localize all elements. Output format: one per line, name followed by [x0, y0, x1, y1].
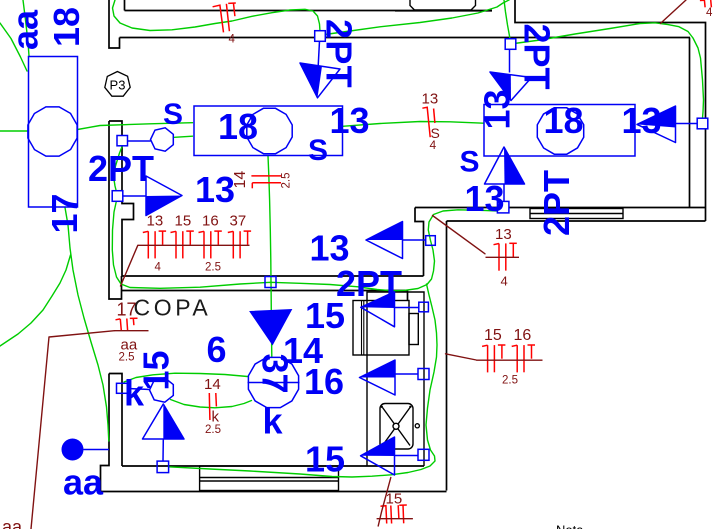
svg-text:Nota: Nota — [556, 523, 584, 529]
switch heptagon k — [150, 378, 174, 402]
lamp triangle T1 — [146, 176, 182, 216]
junction box S_r — [497, 201, 509, 213]
line S2 to lamp T2 — [509, 50, 511, 73]
wall top-left pier — [109, 0, 125, 48]
switch box S0 — [117, 136, 128, 146]
wire k loop lower — [171, 400, 252, 408]
wire left room branch right — [65, 208, 109, 442]
switch heptagon S middle — [151, 128, 174, 151]
window right room — [530, 209, 623, 219]
svg-text:17: 17 — [44, 193, 85, 233]
wall mid-bottom lower line — [122, 290, 408, 292]
svg-text:13: 13 — [495, 226, 512, 243]
fixture right box 18 — [484, 105, 635, 157]
svg-text:2.5: 2.5 — [502, 375, 518, 387]
wire middle box to right box — [343, 122, 484, 127]
junction box S_k — [157, 461, 169, 473]
wire from top into S2 — [504, 0, 511, 44]
closet walls fridge room — [367, 292, 424, 466]
svg-text:P3: P3 — [110, 78, 126, 93]
wall step at kitchen top — [407, 291, 409, 301]
stove double line — [361, 301, 363, 356]
svg-text:2.5: 2.5 — [205, 424, 221, 436]
svg-text:13: 13 — [465, 178, 505, 219]
svg-text:37: 37 — [230, 213, 247, 230]
svg-text:16: 16 — [304, 361, 344, 402]
wall top inner line — [120, 37, 691, 39]
svg-text:aa: aa — [5, 9, 46, 50]
wall mid-left pier — [109, 121, 134, 299]
wire middle lamp down to circle 37 — [268, 156, 272, 357]
svg-text:2PT: 2PT — [536, 170, 577, 236]
junction box S2 — [505, 39, 516, 50]
svg-text:14: 14 — [204, 376, 221, 393]
svg-text:37: 37 — [254, 354, 295, 394]
wall bottom-left pier — [101, 374, 123, 492]
conduit mark top-left with 4 — [213, 3, 236, 33]
svg-text:k: k — [212, 409, 220, 426]
wall top outer line — [125, 10, 493, 12]
svg-text:15: 15 — [175, 213, 192, 230]
wire to left lamp from top — [23, 0, 29, 56]
junction box S13 — [426, 236, 436, 246]
counter chamfer box top — [410, 0, 476, 10]
lamp triangle T2 — [490, 72, 532, 101]
line S3 to lamp T3 — [676, 123, 698, 125]
line kbox to heptagon — [128, 389, 150, 390]
conduit mark 4 top-right with leader — [700, 0, 712, 7]
svg-text:2PT: 2PT — [88, 148, 154, 189]
lamp circle 37 — [248, 357, 300, 407]
lamp triangle T_k up — [143, 404, 185, 439]
switch box k — [117, 383, 128, 393]
svg-text:2PT: 2PT — [517, 24, 558, 90]
wire main loop S_r S13 S15 S0 — [112, 146, 503, 291]
svg-text:13: 13 — [195, 169, 235, 210]
wire lamp to middle box — [78, 123, 193, 130]
svg-text:aa: aa — [63, 462, 104, 503]
line S1 to lamp T — [318, 41, 319, 66]
lamp triangle T13 — [366, 222, 403, 259]
fixture middle box 18 — [194, 106, 343, 156]
lamp triangle T_fr — [361, 437, 395, 475]
svg-text:17: 17 — [117, 300, 137, 320]
wire to left lamp from left upper — [0, 23, 27, 71]
lamp triangle Tr2 — [485, 147, 525, 184]
line T13 to S13 — [403, 239, 426, 241]
svg-text:13: 13 — [477, 89, 518, 129]
leader long to bottom-left — [31, 331, 115, 529]
junction box S1 — [315, 31, 326, 42]
wall mid-bottom left cap — [121, 276, 123, 291]
svg-text:4: 4 — [155, 262, 162, 274]
svg-text:2PT: 2PT — [319, 19, 360, 89]
svg-text:15: 15 — [136, 350, 177, 390]
wall bottom of top-right room outer — [447, 220, 706, 222]
svg-text:2PT: 2PT — [336, 263, 402, 304]
lamp triangle T15 down — [250, 310, 292, 345]
fixture left lamp box 18 — [29, 57, 78, 208]
wire left edge to lamp — [0, 130, 27, 132]
svg-text:16: 16 — [514, 327, 532, 344]
svg-text:13: 13 — [622, 100, 662, 141]
leader from group to wall — [121, 245, 138, 286]
svg-text:6: 6 — [207, 329, 227, 370]
wall kitchen right — [446, 221, 448, 491]
wire switch S to middle box — [175, 136, 193, 137]
wall bottom inner line — [122, 465, 424, 467]
fridge — [380, 404, 419, 450]
svg-text:15: 15 — [305, 439, 345, 480]
counter edge line — [395, 10, 492, 12]
svg-text:S: S — [163, 98, 183, 131]
svg-text:2.5: 2.5 — [119, 352, 135, 364]
lamp triangle T_f1 — [360, 360, 396, 395]
wall bottom outer line — [101, 491, 447, 493]
svg-text:2.5: 2.5 — [205, 262, 221, 274]
line T_fr to S_f2 — [395, 455, 419, 457]
lamp triangle below S1 — [300, 63, 340, 98]
svg-text:18: 18 — [46, 7, 87, 47]
svg-text:aa: aa — [2, 517, 23, 529]
node P3 — [105, 72, 130, 97]
wire S2 to S3 along top-right — [511, 23, 704, 118]
line S_r to lamp Tr2 — [503, 184, 505, 202]
svg-text:S: S — [308, 134, 328, 167]
wall corridor left jamb — [415, 208, 424, 277]
svg-text:13: 13 — [330, 100, 370, 141]
wall mid-bottom upper line — [122, 275, 424, 277]
svg-text:k: k — [263, 401, 284, 442]
junction box S3 — [697, 118, 708, 129]
svg-text:15: 15 — [484, 327, 502, 344]
junction box stove — [419, 302, 429, 312]
stove rect — [353, 301, 409, 356]
svg-text:2.5: 2.5 — [281, 173, 293, 189]
junction box S15 — [265, 277, 276, 288]
lamp circle left — [28, 107, 77, 156]
line S0 to heptagon — [128, 140, 151, 142]
lamp circle right — [537, 108, 583, 154]
line S0b to lamp T1 — [123, 195, 146, 197]
wall bottom of top-right room inner — [415, 207, 706, 209]
line T_k to S_k — [162, 439, 164, 462]
wire left room branch to corner — [0, 255, 71, 346]
line T_f1 to S_f1 — [395, 373, 418, 375]
lamp circle middle — [247, 108, 292, 153]
svg-text:4: 4 — [430, 138, 437, 152]
lamp triangle T3 — [637, 106, 676, 143]
line T_st to S_st — [395, 307, 420, 309]
svg-text:16: 16 — [202, 213, 219, 230]
svg-text:4: 4 — [706, 7, 713, 19]
louver window bottom — [200, 466, 339, 491]
svg-text:13: 13 — [147, 213, 164, 230]
lamp triangle T_st — [361, 292, 395, 327]
wall right inner line — [689, 38, 691, 208]
stove side rect — [409, 314, 418, 345]
junction box S0b — [112, 191, 123, 202]
svg-text:4: 4 — [229, 34, 236, 46]
svg-text:COPA: COPA — [134, 295, 212, 321]
junction box fridge1 — [418, 369, 429, 380]
junction box fridge2 — [418, 449, 429, 460]
wire k loop upper — [124, 373, 248, 382]
svg-text:13: 13 — [422, 91, 439, 108]
wire branch down to stove and around bottom — [169, 284, 438, 477]
svg-text:18: 18 — [544, 100, 584, 141]
wire top arc through S1 to S2 — [113, 0, 510, 41]
svg-text:18: 18 — [218, 106, 258, 147]
wall top-right corner — [515, 0, 706, 221]
svg-text:4: 4 — [501, 274, 508, 289]
conduit mark 14 2.5 rotated — [251, 176, 281, 188]
svg-text:S: S — [460, 146, 480, 179]
outlet disc aa — [62, 439, 110, 461]
